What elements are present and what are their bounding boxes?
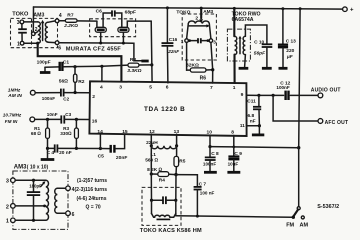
transformer T2 winding bbox=[188, 21, 209, 24]
transformer T2 TOKO AM3 oscillator box bbox=[182, 14, 216, 60]
svg-text:3: 3 bbox=[213, 39, 216, 44]
node terminal 2 of T5 bbox=[11, 204, 16, 209]
svg-text:6: 6 bbox=[166, 85, 169, 91]
svg-text:C1: C1 bbox=[63, 59, 70, 65]
wire top supply rail bbox=[34, 7, 345, 9]
capacitor tank cap in T1 box bbox=[18, 24, 27, 42]
wire terminal 2 row bbox=[15, 205, 46, 207]
node junction filter2 on bus bbox=[122, 42, 125, 45]
svg-text:100nF: 100nF bbox=[42, 96, 55, 101]
terminal FM input bbox=[30, 117, 35, 122]
svg-text:8: 8 bbox=[231, 130, 234, 136]
capacitor C3 10nF bbox=[61, 115, 64, 123]
svg-text:R2: R2 bbox=[78, 79, 85, 85]
svg-text:10nF: 10nF bbox=[47, 112, 58, 117]
node junction rail/C16 bbox=[166, 6, 169, 9]
wire riser pin 10 bbox=[209, 135, 211, 147]
ceramic filter FL1 murata box bbox=[90, 19, 136, 37]
ground for C10 bbox=[262, 67, 272, 70]
wire FM input to pin 16 bbox=[35, 118, 61, 120]
svg-text:C 10: C 10 bbox=[254, 40, 264, 46]
node junction filter1 on bus bbox=[99, 41, 102, 44]
svg-text:2: 2 bbox=[92, 94, 95, 100]
node terminal 3 of T1 bbox=[20, 20, 24, 24]
node junction cap bottom T5 bbox=[32, 219, 35, 222]
ground for T3 secondary bbox=[239, 67, 249, 70]
wire secondary to terminal 6 bbox=[48, 41, 55, 43]
node junction right of cap bbox=[207, 39, 210, 42]
node terminal 2 of T1 bbox=[32, 32, 36, 36]
node junction R2 bottom on AM wire bbox=[74, 91, 77, 94]
inductor L1 22uH bbox=[151, 134, 176, 149]
node junction rail/T3 primary bbox=[233, 7, 236, 10]
capacitor C4 20nF bbox=[55, 144, 58, 152]
wire IC pin 11 stub bbox=[247, 125, 260, 127]
node junction pin14 bbox=[99, 147, 102, 150]
svg-text:R5: R5 bbox=[179, 159, 185, 165]
wire T2 terminal3 to IC pin 7 bbox=[211, 42, 213, 69]
wire riser to IC pin 4 bbox=[101, 66, 103, 81]
svg-text:56pF: 56pF bbox=[254, 51, 266, 57]
capacitor C6 68pF bbox=[103, 10, 122, 27]
svg-text:3: 3 bbox=[17, 20, 20, 26]
transformer T5 primary winding bbox=[46, 180, 49, 220]
resistor R2 56 ohm bbox=[74, 67, 77, 93]
svg-text:R8: R8 bbox=[130, 57, 137, 63]
node terminal 4 of T5 bbox=[66, 186, 71, 191]
wire T2 left leg bbox=[187, 24, 189, 39]
svg-text:nF: nF bbox=[250, 119, 256, 125]
transformer T5 AM3 detail drawing box bbox=[13, 171, 68, 229]
svg-text:68 Ω: 68 Ω bbox=[31, 131, 42, 136]
wire secondary to terminal 4 bbox=[48, 21, 55, 22]
svg-text:8 2K Ω: 8 2K Ω bbox=[147, 167, 162, 173]
wire C4 row bbox=[48, 147, 54, 149]
terminal +V supply bbox=[343, 7, 348, 12]
svg-text:4: 4 bbox=[100, 85, 103, 91]
node junction pin12/L1 bbox=[150, 144, 153, 147]
svg-text:C5: C5 bbox=[98, 154, 105, 160]
wire IC pin 9 row bbox=[247, 94, 284, 96]
wire T3 secondary top to C10 bbox=[245, 25, 267, 44]
wire riser to IC pin 14 bbox=[99, 134, 101, 149]
svg-text:TOKO: TOKO bbox=[176, 9, 190, 15]
resistor R4 8.2k bbox=[151, 146, 176, 177]
node junction R2 top bbox=[73, 65, 76, 68]
svg-text:TDA 1220 B: TDA 1220 B bbox=[144, 106, 185, 113]
node junction AFC drop bbox=[272, 94, 275, 97]
svg-text:( 10 x 10): ( 10 x 10) bbox=[27, 164, 49, 170]
svg-text:100 nF: 100 nF bbox=[200, 191, 215, 196]
ground for pin 11 bbox=[252, 126, 264, 135]
wire T4 output to switch FM contact bbox=[175, 214, 177, 216]
capacitor C1 100uF bbox=[45, 62, 102, 71]
svg-text:FM IN: FM IN bbox=[5, 119, 18, 124]
svg-text:(1-2)57 turns: (1-2)57 turns bbox=[77, 178, 107, 184]
node junction T4 right bbox=[174, 199, 177, 202]
wire riser from rail to T1 terminal 2 bbox=[32, 7, 34, 32]
svg-text:AM3: AM3 bbox=[203, 9, 213, 14]
svg-text:C 13: C 13 bbox=[286, 39, 296, 45]
svg-text:6: 6 bbox=[72, 212, 75, 218]
node junction rail/switch riser bbox=[299, 7, 302, 10]
svg-text:10µF: 10µF bbox=[228, 162, 239, 167]
capacitor C16 22nF with riser from rail to pin 6 bbox=[162, 8, 174, 83]
wire filter ground bus from terminal 6 bbox=[59, 43, 146, 61]
node terminal 1 of T2 bbox=[185, 39, 189, 43]
capacitor C8 100nF bbox=[205, 147, 216, 172]
svg-text:6: 6 bbox=[58, 45, 61, 51]
node junction pin8/C9 bbox=[232, 146, 235, 149]
svg-text:C 8: C 8 bbox=[211, 151, 219, 157]
svg-text:MURATA CFZ 455F: MURATA CFZ 455F bbox=[66, 46, 121, 52]
node junction left of cap bbox=[188, 39, 191, 42]
capacitor tank cap in T4 bbox=[152, 196, 176, 204]
svg-text:AM IN: AM IN bbox=[7, 93, 22, 99]
transformer T3 secondary bbox=[243, 36, 245, 54]
wire T4 right leg from pin 13 bbox=[175, 175, 177, 201]
transformer T1 primary winding bbox=[38, 22, 41, 43]
svg-text:2: 2 bbox=[6, 204, 9, 210]
wire T3 secondary bottom to ground bbox=[244, 55, 247, 68]
resistor R5 560 ohm bbox=[174, 146, 179, 175]
node junction R1 top bbox=[46, 118, 49, 121]
wire T2 right leg bbox=[209, 24, 211, 39]
node junction cap top T5 bbox=[32, 179, 35, 182]
wire secondary to terminal 6 bbox=[57, 212, 65, 214]
node junction R3 top bbox=[75, 118, 78, 121]
ceramic filter element 2 bbox=[118, 21, 151, 43]
svg-text:5: 5 bbox=[149, 85, 152, 91]
node junction R4 left bbox=[150, 172, 153, 175]
svg-text:2.2KΩ: 2.2KΩ bbox=[63, 23, 78, 28]
transformer T1 secondary winding bbox=[45, 22, 48, 42]
svg-text:20nF: 20nF bbox=[116, 155, 127, 161]
node terminal 6 of T1 bbox=[55, 41, 59, 45]
wire tuning arrow of T5 bbox=[41, 183, 44, 187]
svg-text:1: 1 bbox=[6, 219, 9, 225]
svg-text:3: 3 bbox=[119, 85, 122, 91]
node terminal 3 of T2 bbox=[209, 39, 213, 43]
svg-text:C11: C11 bbox=[247, 99, 256, 105]
svg-text:AUDIO OUT: AUDIO OUT bbox=[311, 88, 341, 94]
svg-text:AM3: AM3 bbox=[14, 165, 27, 171]
svg-text:TOKO KACS K586 HM: TOKO KACS K586 HM bbox=[140, 228, 202, 234]
op-amp IC U1 TDA1220B outline bbox=[89, 81, 246, 136]
node junction riser/C8 C9 row bbox=[297, 146, 300, 149]
capacitor 180pF in T5 bbox=[27, 180, 40, 220]
capacitor tank cap in T2 bbox=[188, 38, 209, 43]
inductor winding of T4 bbox=[152, 200, 176, 219]
wire tuning arrow of T3 bbox=[239, 38, 241, 54]
svg-text:16: 16 bbox=[92, 119, 98, 125]
svg-text:S-5367/2: S-5367/2 bbox=[317, 204, 339, 210]
resistor R1 68 ohm bbox=[46, 119, 50, 148]
svg-text:AFC OUT: AFC OUT bbox=[325, 120, 349, 126]
wire bold riser rail to T3 primary and IC pin 1 bbox=[233, 8, 235, 36]
svg-text:10.7MHz: 10.7MHz bbox=[3, 113, 22, 118]
svg-text:1: 1 bbox=[233, 85, 236, 91]
terminal AM input bbox=[30, 90, 35, 95]
node junction pin10/C8 bbox=[208, 145, 211, 148]
wire AM input to pin 2 bbox=[35, 92, 60, 94]
capacitor C2 100nF bbox=[61, 89, 64, 97]
node junction C4/R1/ground bbox=[46, 147, 49, 150]
capacitor C13 220uF bbox=[278, 9, 288, 68]
resistor R6 82k bbox=[187, 42, 213, 72]
capacitor C5 20nF bbox=[100, 134, 124, 153]
node junction C4/R3 bbox=[75, 147, 78, 150]
wire terminal 1 row bbox=[15, 219, 46, 221]
node junction C11 top bbox=[257, 94, 260, 97]
wire IC pin10/pin8 decoupling row bbox=[210, 147, 299, 148]
svg-text:+: + bbox=[350, 8, 354, 14]
capacitor C11 6.8nF bbox=[253, 95, 261, 125]
node junction R8/pin5 riser bbox=[150, 63, 153, 66]
svg-text:100nF: 100nF bbox=[203, 162, 216, 167]
svg-text:20 nF: 20 nF bbox=[59, 150, 72, 156]
wire bus end bar bbox=[141, 60, 148, 63]
node junction pin13/L1 bbox=[175, 144, 178, 147]
svg-text:12: 12 bbox=[149, 129, 155, 135]
capacitor C12 100nF coupling bbox=[286, 91, 289, 100]
node junction pin4 riser bbox=[100, 65, 103, 68]
svg-text:FM: FM bbox=[286, 222, 294, 228]
svg-text:56Ω: 56Ω bbox=[59, 79, 68, 85]
svg-text:µF: µF bbox=[286, 54, 294, 60]
ground for C9 bbox=[227, 171, 240, 174]
svg-text:C 7: C 7 bbox=[199, 181, 207, 187]
svg-text:68pF: 68pF bbox=[125, 9, 136, 15]
wire riser pin 8 bbox=[233, 135, 235, 147]
svg-text:220: 220 bbox=[286, 48, 294, 54]
svg-text:C 9: C 9 bbox=[234, 151, 242, 157]
svg-text:82KΩ: 82KΩ bbox=[186, 62, 199, 68]
svg-text:R3: R3 bbox=[63, 126, 69, 131]
node junction R6/pin7 bbox=[211, 68, 214, 71]
terminal AUDIO OUT bbox=[318, 93, 323, 98]
svg-text:1: 1 bbox=[181, 39, 184, 44]
svg-text:C2: C2 bbox=[63, 96, 69, 101]
svg-text:R7: R7 bbox=[67, 12, 74, 18]
svg-text:10: 10 bbox=[207, 129, 213, 135]
wire bold T1 bottom to IC pin 3 bbox=[38, 43, 122, 83]
wire secondary to terminal 4 bbox=[57, 187, 65, 189]
wire C1 node to R8 bbox=[102, 65, 128, 66]
ground for C1 bbox=[40, 67, 51, 72]
node terminal 1 of T5 bbox=[11, 218, 16, 223]
svg-text:6.8: 6.8 bbox=[248, 113, 255, 119]
wire bold riser rail to T2 tap bbox=[200, 8, 202, 18]
svg-text:330Ω: 330Ω bbox=[60, 131, 72, 136]
svg-text:3.3KΩ: 3.3KΩ bbox=[127, 68, 141, 74]
wire riser C6/filter2 to pin5 bbox=[150, 21, 153, 83]
svg-text:AM3: AM3 bbox=[33, 12, 44, 18]
svg-text:4: 4 bbox=[59, 13, 62, 19]
terminal AFC OUT bbox=[318, 119, 323, 124]
svg-text:C16: C16 bbox=[169, 37, 178, 42]
svg-text:100nF: 100nF bbox=[276, 85, 289, 90]
transformer T5 secondary winding bbox=[55, 188, 58, 213]
node junction rail/C13 bbox=[281, 7, 284, 10]
node junction T4 left bbox=[150, 199, 153, 202]
node terminal 4 of T1 bbox=[55, 19, 59, 23]
svg-text:1MHz: 1MHz bbox=[8, 88, 21, 94]
capacitor C10 56pF bbox=[262, 44, 273, 67]
svg-text:(4-6) 24turns: (4-6) 24turns bbox=[77, 196, 107, 202]
node junction pin11/C11 bbox=[258, 124, 261, 127]
transformer T4 TOKO KACS K586 box bbox=[142, 187, 181, 225]
wire T4 left leg from pin 12 bbox=[150, 174, 152, 200]
node junction tap T5 bbox=[43, 205, 46, 208]
node junction C7 bottom bbox=[196, 215, 199, 218]
resistor R8 3.3k bbox=[128, 63, 152, 67]
wire terminal1 to primary bottom bbox=[24, 42, 38, 44]
svg-text:AM: AM bbox=[300, 223, 309, 229]
svg-text:7: 7 bbox=[210, 85, 213, 91]
svg-text:TOKO: TOKO bbox=[12, 12, 29, 18]
wire AFC out bbox=[273, 95, 318, 121]
svg-text:(2-3)116 turns: (2-3)116 turns bbox=[75, 187, 108, 193]
capacitor C7 100nF bbox=[176, 175, 202, 217]
transformer T3 TOKO RWO 6A6574A quadrature coil bbox=[227, 29, 250, 61]
wire tuning arrow of T1 bbox=[42, 23, 44, 41]
svg-text:11: 11 bbox=[240, 123, 245, 128]
svg-text:Q = 70: Q = 70 bbox=[86, 205, 101, 211]
resistor R3 330 ohm bbox=[75, 119, 79, 148]
wire terminal2 tap connector bbox=[35, 32, 38, 34]
node junction on terminal1 wire bbox=[36, 42, 39, 45]
svg-text:R4: R4 bbox=[159, 177, 165, 183]
wire riser to switch bbox=[298, 148, 300, 207]
ground for C8 bbox=[204, 171, 217, 174]
wire terminal3 to primary top bbox=[24, 21, 38, 23]
svg-text:1: 1 bbox=[17, 42, 20, 48]
svg-text:3: 3 bbox=[6, 179, 9, 185]
svg-text:C6: C6 bbox=[96, 9, 103, 15]
svg-text:R1: R1 bbox=[34, 126, 40, 131]
node terminal 3 of T5 bbox=[11, 178, 16, 183]
svg-text:14: 14 bbox=[97, 129, 103, 135]
ground for C13 bbox=[279, 67, 288, 70]
ground for C4 node bbox=[41, 148, 55, 159]
svg-text:22nF: 22nF bbox=[167, 49, 179, 54]
ceramic filter element 1 bbox=[95, 21, 106, 43]
wire terminal 3 row bbox=[15, 179, 46, 181]
node junction R4/R5/C7 bbox=[174, 173, 177, 176]
capacitor C9 10uF bbox=[228, 147, 239, 171]
resistor R7 2.2k bbox=[59, 19, 97, 22]
svg-text:9: 9 bbox=[241, 92, 244, 98]
node terminal 6 of T5 bbox=[66, 211, 71, 216]
transformer T1 TOKO AM3 IF box bbox=[11, 18, 58, 47]
node junction rail/T2 tap bbox=[200, 7, 203, 10]
node terminal 1 of T1 bbox=[20, 41, 24, 45]
svg-text:R6: R6 bbox=[200, 76, 207, 82]
switch S1 FM/AM bbox=[292, 207, 305, 219]
svg-text:C3: C3 bbox=[65, 112, 71, 117]
svg-text:15: 15 bbox=[122, 129, 128, 135]
svg-text:100µF: 100µF bbox=[37, 60, 51, 66]
wire switch riser from rail bbox=[299, 9, 300, 148]
